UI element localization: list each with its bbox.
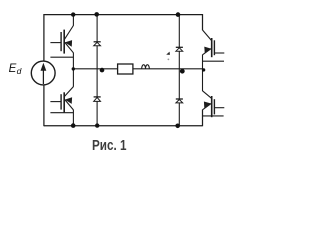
transistor VT1 emitter diagonal xyxy=(65,42,74,52)
transistor VT3 emitter wire xyxy=(202,55,204,69)
mid rail (load line) xyxy=(73,68,117,70)
transistor VT2 emitter stub xyxy=(50,112,73,114)
node top-left junction xyxy=(71,12,75,16)
top rail xyxy=(44,14,203,16)
transistor VT4 gate bar xyxy=(213,99,215,114)
left rail lower segment xyxy=(43,85,45,127)
transistor VT4 collector wire xyxy=(202,69,204,91)
left rail upper segment xyxy=(43,14,45,61)
diode VD3 xyxy=(176,47,183,51)
transistor VT4 collector diagonal xyxy=(203,91,212,99)
transistor VT4 channel bar xyxy=(211,96,213,117)
transistor VT2 collector wire xyxy=(72,69,74,87)
wire mid right of resistor xyxy=(133,68,203,70)
node mid-left junction xyxy=(72,67,75,70)
transistor VT3 emitter diagonal xyxy=(203,49,212,55)
transistor VT2 gate lead xyxy=(50,101,60,103)
node mid diode-left junction xyxy=(100,68,105,73)
transistor VT3 channel bar xyxy=(211,38,213,57)
transistor VT2 emitter arrow xyxy=(65,97,72,104)
node bottom diode-right junction xyxy=(175,124,180,129)
transistor VT3 collector wire xyxy=(202,14,204,30)
wire left diode leg xyxy=(96,15,98,126)
inductor L load xyxy=(142,65,150,69)
node mid-right junction xyxy=(202,68,205,71)
bottom rail xyxy=(44,125,203,127)
svg-text:d: d xyxy=(17,66,22,76)
transistor VT2 emitter wire xyxy=(72,110,74,126)
transistor VT2 emitter diagonal xyxy=(65,100,74,110)
current mark dot xyxy=(168,59,170,61)
transistor VT1 gate bar xyxy=(60,32,62,51)
transistor VT1 emitter arrow xyxy=(65,40,72,47)
transistor VT3 emitter arrow xyxy=(204,47,211,53)
node top diode-right junction xyxy=(176,12,181,17)
transistor VT4 emitter arrow xyxy=(204,102,211,109)
transistor VT1 emitter stub xyxy=(50,56,73,58)
transistor VT2 channel bar xyxy=(63,92,65,112)
svg-text:Рис. 1: Рис. 1 xyxy=(92,137,127,154)
current mark arrow xyxy=(166,52,170,55)
node top diode-left junction xyxy=(94,12,99,17)
wire right diode leg xyxy=(178,15,180,126)
resistor R load xyxy=(118,64,133,74)
svg-text:E: E xyxy=(9,63,17,75)
transistor VT4 emitter stub xyxy=(203,115,224,117)
transistor VT1 collector diagonal xyxy=(64,26,73,40)
transistor VT1 collector wire xyxy=(72,15,74,26)
current source arrow xyxy=(42,69,44,84)
transistor VT3 gate lead xyxy=(215,52,225,54)
transistor VT3 collector diagonal xyxy=(203,30,212,41)
transistor VT1 channel bar xyxy=(63,30,65,54)
diode VD1 xyxy=(94,42,101,46)
node mid diode-right junction xyxy=(180,69,185,74)
diode VD4 xyxy=(176,99,183,103)
transistor VT1 emitter wire xyxy=(72,53,74,69)
transistor VT1 gate lead xyxy=(50,42,60,44)
current source Ed circle xyxy=(31,61,55,85)
transistor VT4 emitter wire xyxy=(202,110,204,127)
transistor VT3 emitter stub xyxy=(203,60,225,62)
transistor VT3 gate bar xyxy=(213,40,215,55)
node bottom-left junction xyxy=(71,123,76,128)
transistor VT4 gate lead xyxy=(215,107,225,109)
transistor VT2 gate bar xyxy=(60,94,62,109)
transistor VT4 emitter diagonal xyxy=(203,104,212,110)
node bottom diode-left junction xyxy=(95,123,99,127)
transistor VT2 collector diagonal xyxy=(64,87,73,97)
diode VD2 xyxy=(94,97,101,102)
